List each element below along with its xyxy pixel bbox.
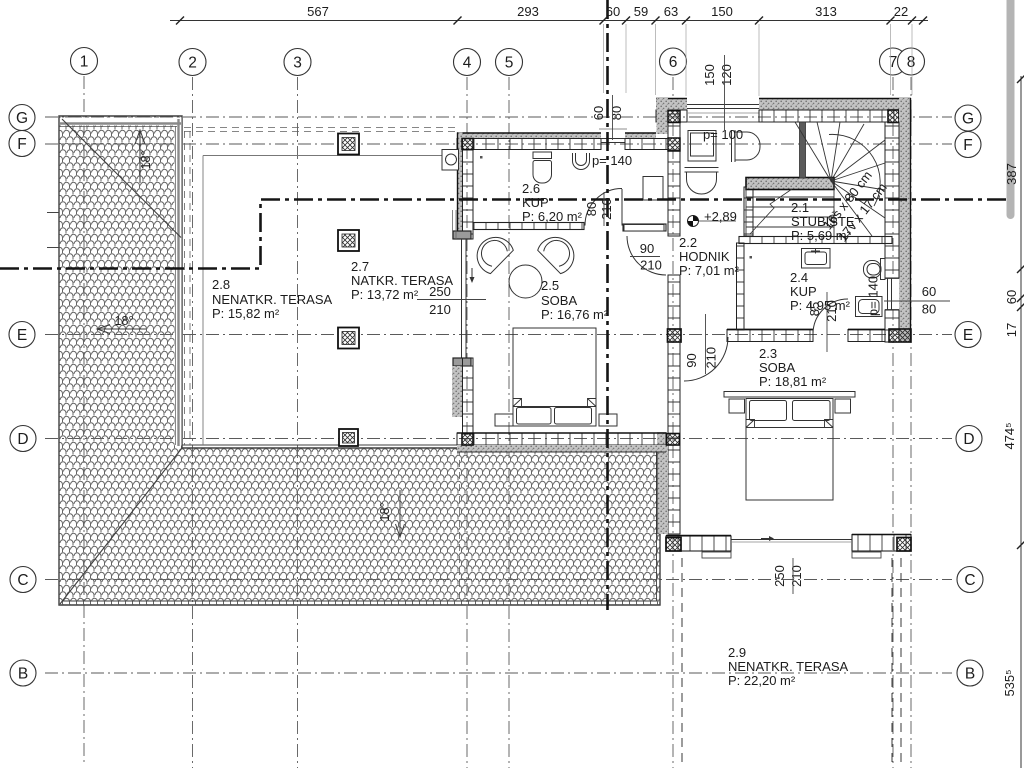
svg-text:F: F — [17, 136, 26, 153]
svg-text:P: 16,76 m²: P: 16,76 m² — [541, 307, 609, 322]
svg-text:210: 210 — [429, 302, 451, 317]
svg-text:p= 140: p= 140 — [866, 276, 881, 316]
svg-text:G: G — [962, 111, 974, 128]
svg-text:18°: 18° — [378, 503, 392, 522]
svg-text:250: 250 — [772, 565, 787, 587]
svg-text:NENATKR. TERASA: NENATKR. TERASA — [212, 292, 332, 307]
svg-text:C: C — [964, 572, 975, 589]
svg-text:535⁵: 535⁵ — [1002, 669, 1017, 696]
svg-text:60: 60 — [922, 284, 936, 299]
svg-text:4: 4 — [463, 55, 472, 72]
svg-text:B: B — [18, 666, 28, 683]
svg-text:17: 17 — [1004, 323, 1019, 337]
svg-text:2.7: 2.7 — [351, 259, 369, 274]
svg-text:P: 6,20 m²: P: 6,20 m² — [522, 209, 583, 224]
svg-text:NENATKR. TERASA: NENATKR. TERASA — [728, 659, 848, 674]
svg-text:D: D — [17, 431, 28, 448]
svg-text:8: 8 — [907, 54, 916, 71]
svg-text:120: 120 — [719, 64, 734, 86]
svg-text:2.4: 2.4 — [790, 270, 808, 285]
svg-text:P: 22,20 m²: P: 22,20 m² — [728, 673, 796, 688]
svg-text:59: 59 — [634, 4, 648, 19]
svg-text:210: 210 — [789, 565, 804, 587]
svg-text:90: 90 — [684, 353, 699, 367]
svg-text:2.2: 2.2 — [679, 235, 697, 250]
svg-text:SOBA: SOBA — [759, 360, 795, 375]
svg-text:2: 2 — [188, 55, 197, 72]
svg-text:HODNIK: HODNIK — [679, 249, 730, 264]
svg-text:60: 60 — [1004, 290, 1019, 304]
svg-text:P: 13,72 m²: P: 13,72 m² — [351, 287, 419, 302]
svg-text:18°: 18° — [139, 151, 153, 170]
svg-text:313: 313 — [815, 4, 837, 19]
svg-text:KUP: KUP — [522, 195, 549, 210]
svg-text:293: 293 — [517, 4, 539, 19]
svg-text:E: E — [963, 327, 973, 344]
svg-text:G: G — [16, 110, 28, 127]
svg-text:P: 7,01 m²: P: 7,01 m² — [679, 263, 740, 278]
svg-text:210: 210 — [599, 198, 614, 220]
svg-text:P: 15,82 m²: P: 15,82 m² — [212, 306, 280, 321]
svg-text:P: 4,95 m²: P: 4,95 m² — [790, 298, 851, 313]
svg-text:18°: 18° — [115, 314, 134, 328]
svg-text:150: 150 — [711, 4, 733, 19]
svg-text:2.3: 2.3 — [759, 346, 777, 361]
svg-text:F: F — [963, 137, 972, 154]
svg-text:60: 60 — [591, 106, 606, 120]
svg-text:2.1: 2.1 — [791, 200, 809, 215]
svg-text:P: 18,81 m²: P: 18,81 m² — [759, 374, 827, 389]
svg-text:22: 22 — [894, 4, 908, 19]
svg-text:2.9: 2.9 — [728, 645, 746, 660]
svg-text:2.8: 2.8 — [212, 277, 230, 292]
svg-text:60: 60 — [606, 4, 620, 19]
svg-text:2.5: 2.5 — [541, 278, 559, 293]
svg-text:E: E — [17, 327, 27, 344]
svg-text:7: 7 — [889, 54, 898, 71]
svg-text:387: 387 — [1004, 163, 1019, 185]
svg-text:63: 63 — [664, 4, 678, 19]
svg-text:p= 100: p= 100 — [703, 127, 743, 142]
svg-text:2.6: 2.6 — [522, 181, 540, 196]
svg-text:3: 3 — [293, 55, 302, 72]
svg-text:p= 140: p= 140 — [592, 153, 632, 168]
svg-text:1: 1 — [80, 54, 89, 71]
svg-text:C: C — [17, 572, 28, 589]
svg-text:B: B — [965, 666, 975, 683]
svg-text:+2,89: +2,89 — [704, 209, 737, 224]
svg-text:KUP: KUP — [790, 284, 817, 299]
svg-text:80: 80 — [584, 202, 599, 216]
svg-text:6: 6 — [669, 54, 678, 71]
svg-text:80: 80 — [609, 106, 624, 120]
svg-text:80: 80 — [922, 302, 936, 317]
svg-text:5: 5 — [505, 55, 514, 72]
svg-text:90: 90 — [640, 241, 654, 256]
svg-text:SOBA: SOBA — [541, 293, 577, 308]
svg-text:567: 567 — [307, 4, 329, 19]
svg-text:NATKR. TERASA: NATKR. TERASA — [351, 273, 453, 288]
svg-text:150: 150 — [702, 64, 717, 86]
svg-text:210: 210 — [640, 258, 662, 273]
svg-text:D: D — [963, 431, 974, 448]
svg-text:474⁵: 474⁵ — [1002, 422, 1017, 449]
